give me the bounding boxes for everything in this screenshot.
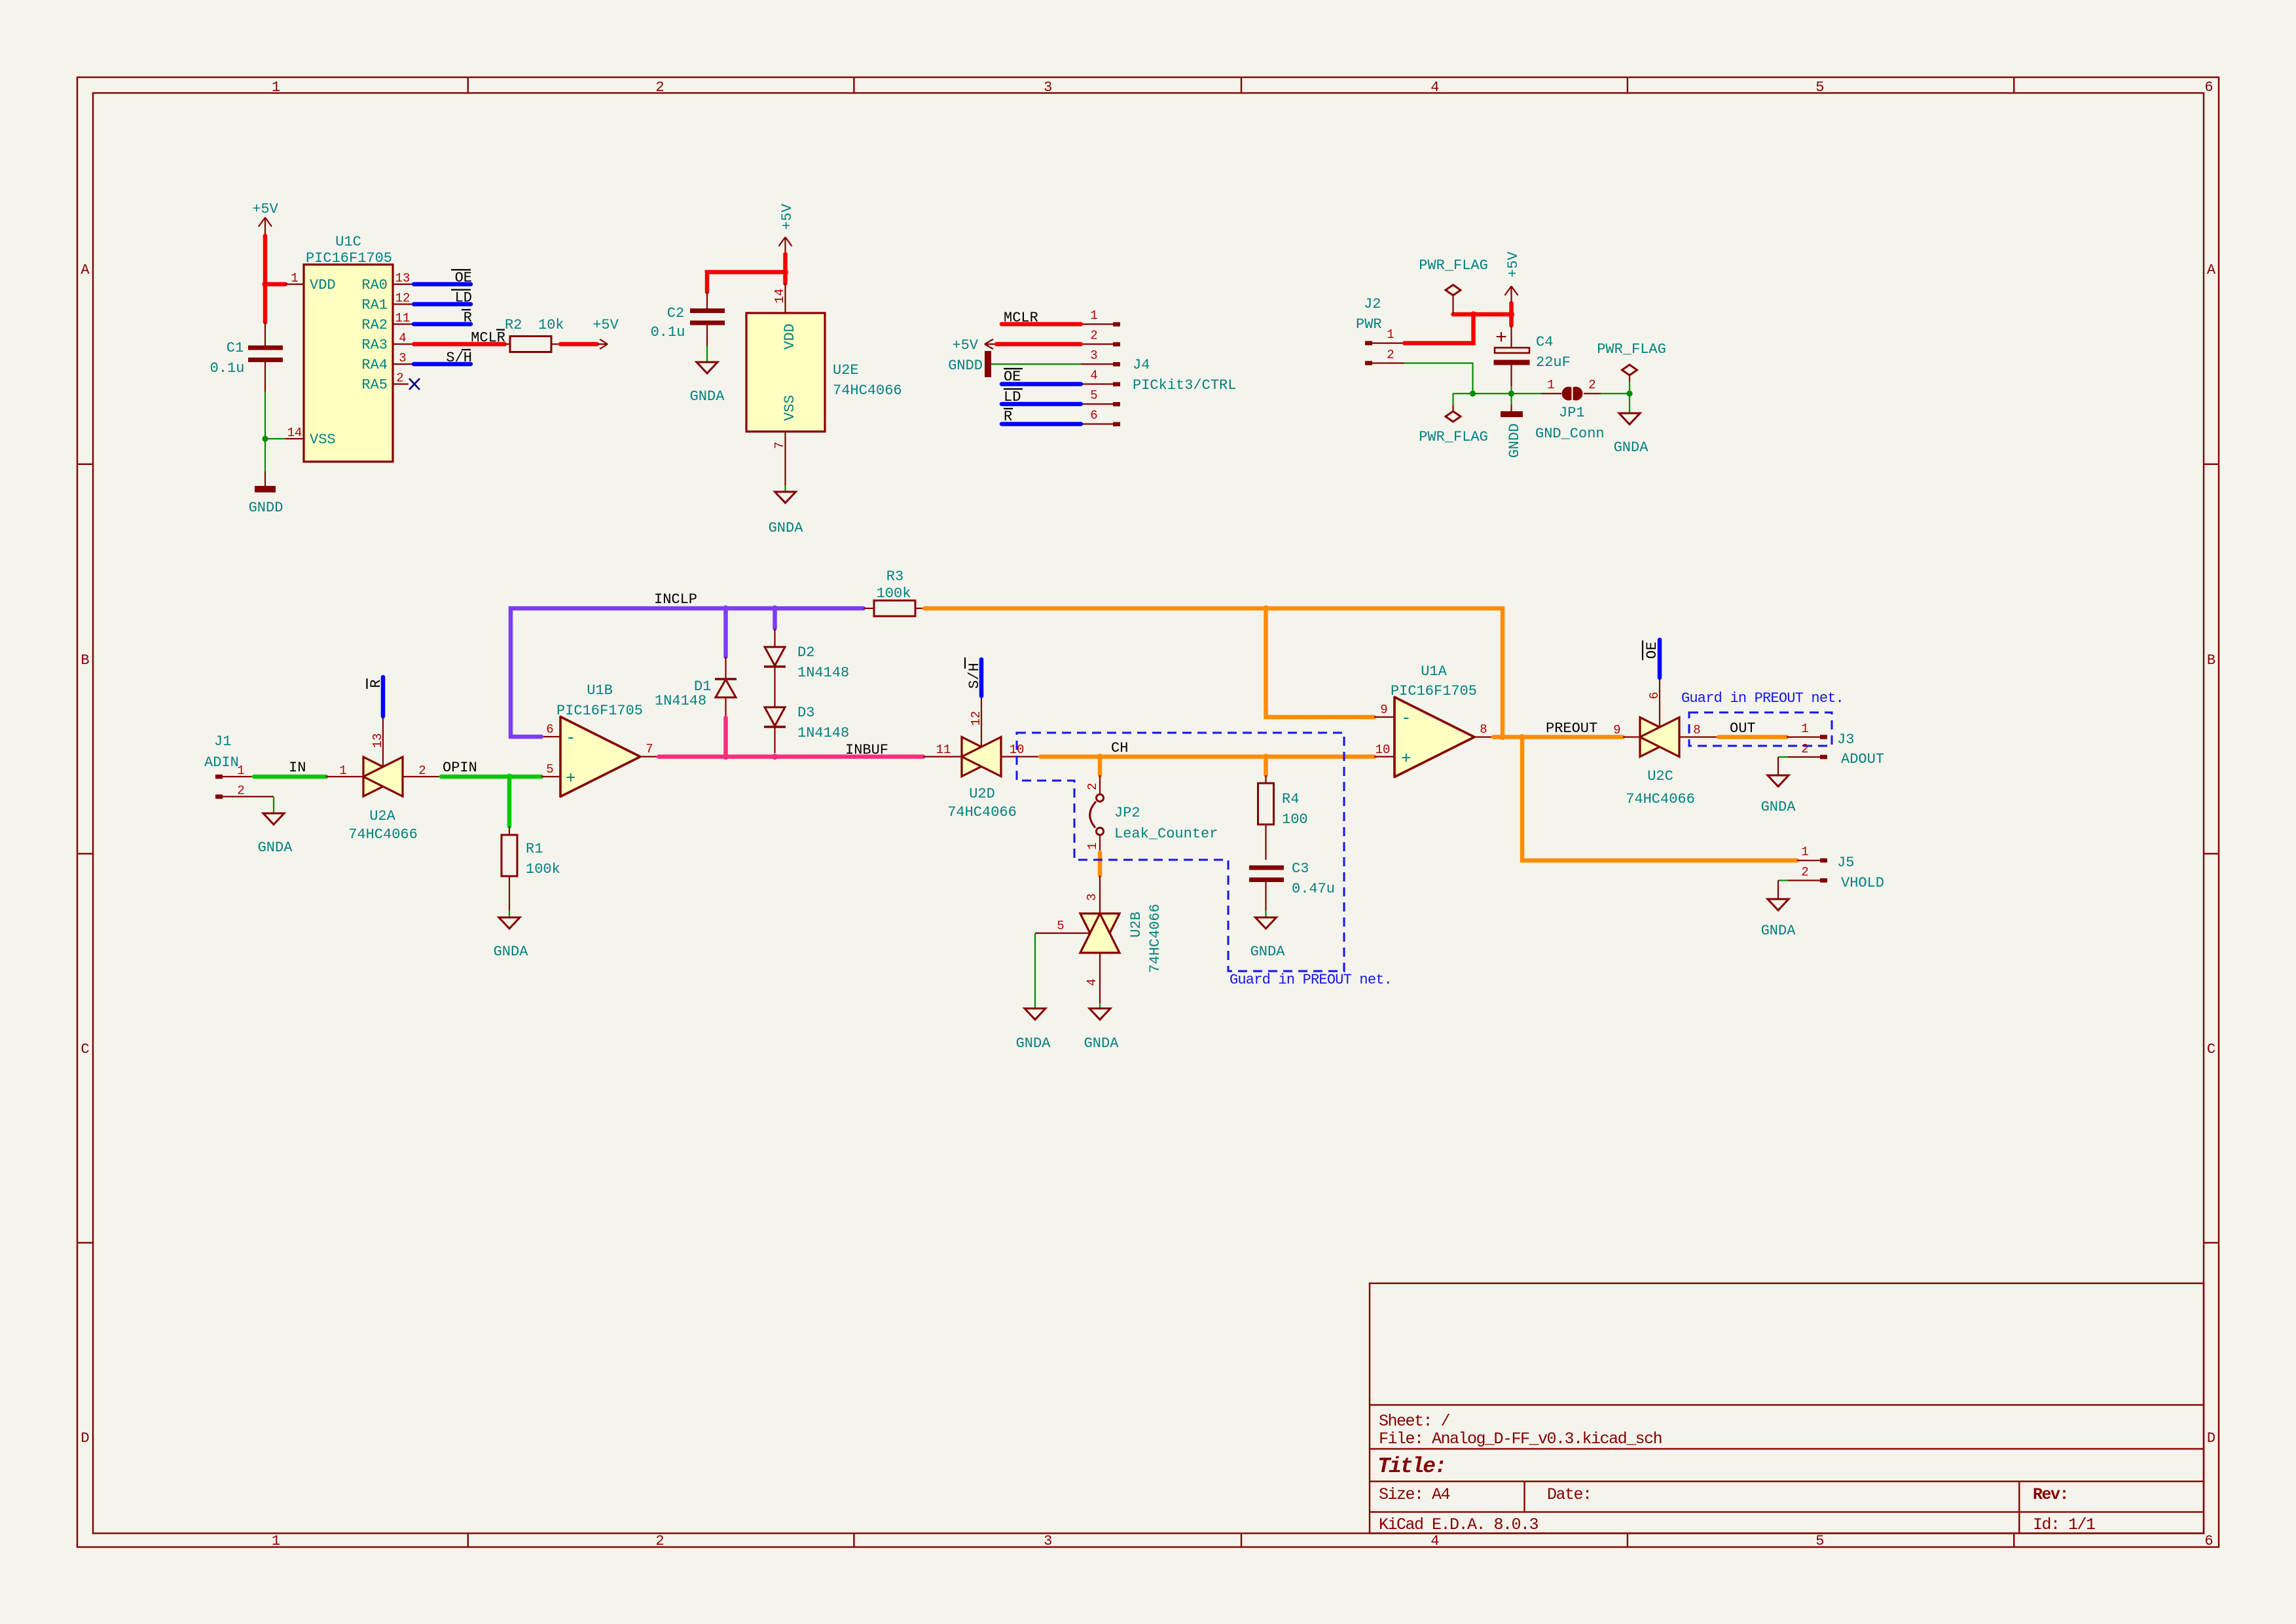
svg-text:5: 5 <box>1815 1533 1824 1549</box>
jumper JP2 Leak_Counter <box>1085 775 1218 853</box>
analog switch U2D 74HC4066 <box>923 697 1040 821</box>
pin 1 <box>1365 341 1372 346</box>
svg-text:Size: A4: Size: A4 <box>1379 1485 1450 1504</box>
label MCLR <box>471 330 505 346</box>
svg-text:10k: 10k <box>538 317 564 333</box>
power +5V (J2) <box>1505 251 1522 303</box>
svg-text:Sheet: /: Sheet: / <box>1379 1412 1450 1431</box>
wire RA4 S/H (blue) <box>414 362 471 367</box>
analog switch U2B 74HC4066 <box>1035 876 1163 1003</box>
svg-text:OPIN: OPIN <box>443 760 477 776</box>
wire OE control (blue) <box>1658 640 1662 678</box>
power flag PWR_FLAG (GND left) <box>1419 394 1488 445</box>
svg-text:+5V: +5V <box>952 337 978 354</box>
junction INCLP D1 <box>723 605 729 611</box>
title block <box>1370 1283 2204 1534</box>
svg-text:7: 7 <box>646 742 653 756</box>
wire INCLP to D1 (purple) <box>723 608 728 657</box>
svg-text:13: 13 <box>395 271 410 286</box>
svg-text:3: 3 <box>1044 79 1052 96</box>
wire J1 pin2 to GNDA (green) <box>273 797 274 813</box>
ground GNDA (J5) <box>1761 899 1796 939</box>
ground GNDA (U2B pin5) <box>1016 1008 1051 1052</box>
svg-text:U1B: U1B <box>587 682 613 699</box>
pin 11 RA2 <box>393 323 412 325</box>
wire R3 to U1A (orange) <box>924 608 1503 737</box>
label OE <box>451 270 472 286</box>
svg-text:1: 1 <box>237 764 244 778</box>
svg-text:7: 7 <box>773 441 787 449</box>
svg-text:S/H: S/H <box>446 350 472 366</box>
pin 12 RA1 <box>393 303 412 304</box>
power flag PWR_FLAG (GND right) <box>1597 341 1666 394</box>
svg-text:C: C <box>2207 1041 2215 1058</box>
svg-text:IN: IN <box>289 760 306 776</box>
capacitor C1 <box>210 322 283 392</box>
wire J4 GNDD (green) <box>991 363 1081 365</box>
svg-text:U1A: U1A <box>1421 663 1447 680</box>
wire R2 to +5V (red) <box>560 342 597 346</box>
connector J1 ADIN <box>204 733 274 799</box>
wire RA2 R (blue) <box>414 322 471 327</box>
junction bus 1 <box>1470 390 1476 396</box>
svg-text:GND_Conn: GND_Conn <box>1535 426 1605 442</box>
svg-text:B: B <box>2207 652 2215 669</box>
junction CH R4 <box>1263 754 1269 760</box>
resistor R2 <box>505 317 564 352</box>
pin 13 RA0 <box>393 284 412 285</box>
wire J4 R (blue) <box>1002 422 1081 426</box>
wire INBUF (pink) <box>659 754 923 759</box>
svg-text:A: A <box>2207 262 2216 278</box>
pin 2 <box>1365 361 1372 365</box>
svg-text:GNDD: GNDD <box>1506 424 1523 458</box>
svg-text:1N4148: 1N4148 <box>797 665 849 681</box>
svg-text:PWR_FLAG: PWR_FLAG <box>1597 341 1666 358</box>
junction VDD node <box>262 281 268 287</box>
label R (U2A control) <box>367 678 385 689</box>
wire CH to JP2 (orange) <box>1098 757 1102 776</box>
svg-text:3: 3 <box>1085 893 1099 900</box>
pin 7 output <box>640 756 659 757</box>
svg-text:VSS: VSS <box>310 432 336 448</box>
wire CH (orange) <box>1040 754 1374 759</box>
svg-text:-: - <box>1401 709 1412 728</box>
svg-text:RA2: RA2 <box>361 317 388 333</box>
svg-text:2: 2 <box>1588 378 1595 392</box>
svg-text:PWR: PWR <box>1356 316 1382 333</box>
svg-text:LD: LD <box>455 290 472 306</box>
svg-text:6: 6 <box>546 722 553 737</box>
svg-text:3: 3 <box>399 351 406 365</box>
junction PREOUT feedback <box>1499 734 1505 740</box>
svg-text:5: 5 <box>1090 388 1097 403</box>
svg-text:RA4: RA4 <box>361 357 388 373</box>
svg-text:8: 8 <box>1480 722 1487 737</box>
svg-text:4: 4 <box>399 331 406 346</box>
svg-text:KiCad E.D.A. 8.0.3: KiCad E.D.A. 8.0.3 <box>1379 1515 1539 1534</box>
label OE (U2C control) <box>1643 640 1660 660</box>
svg-text:MCLR: MCLR <box>471 330 505 346</box>
svg-text:14: 14 <box>773 289 787 304</box>
svg-text:GNDA: GNDA <box>690 388 725 405</box>
ground GNDA (C3) <box>1250 917 1286 960</box>
svg-text:GNDA: GNDA <box>494 944 529 960</box>
svg-text:8: 8 <box>1693 723 1700 737</box>
svg-text:J1: J1 <box>214 733 231 750</box>
resistor R1 100k <box>501 826 560 910</box>
svg-text:11: 11 <box>395 311 410 325</box>
wire PREOUT to J5 (orange) <box>1522 737 1797 861</box>
svg-text:1: 1 <box>291 271 298 286</box>
junction INBUF D1 <box>723 754 729 760</box>
wire R1 to GNDA (green) <box>509 910 510 917</box>
svg-text:ADIN: ADIN <box>204 754 239 771</box>
svg-text:R: R <box>464 310 472 326</box>
svg-text:1: 1 <box>339 764 346 778</box>
label S/H <box>446 350 472 366</box>
svg-text:+: + <box>1401 749 1412 769</box>
junction CH JP2 <box>1097 754 1102 760</box>
IC U1C PIC16F1705 <box>285 234 412 462</box>
junction bus right <box>1626 390 1632 396</box>
diode D2 1N4148 <box>764 629 849 707</box>
svg-text:D: D <box>2207 1430 2215 1447</box>
label LD (J4) <box>1004 389 1023 405</box>
svg-text:GNDD: GNDD <box>249 500 283 516</box>
pin 14 VDD <box>784 284 786 313</box>
svg-text:+5V: +5V <box>252 201 278 217</box>
svg-text:12: 12 <box>395 291 410 306</box>
svg-text:File: Analog_D-FF_v0.3.kicad_s: File: Analog_D-FF_v0.3.kicad_sch <box>1379 1430 1662 1449</box>
svg-text:U2C: U2C <box>1647 768 1673 784</box>
pin 6 <box>1081 423 1113 424</box>
svg-text:2: 2 <box>1387 348 1394 362</box>
svg-text:PIC16F1705: PIC16F1705 <box>556 703 643 719</box>
svg-text:3: 3 <box>1090 348 1097 363</box>
svg-text:+: + <box>1495 327 1507 350</box>
svg-text:GNDA: GNDA <box>1016 1035 1051 1052</box>
svg-text:2: 2 <box>418 764 426 778</box>
wire OUT (orange) <box>1719 735 1787 739</box>
svg-text:PWR_FLAG: PWR_FLAG <box>1419 257 1488 274</box>
no-connect X on RA5 <box>409 378 420 390</box>
wire PREOUT (orange) <box>1493 735 1623 739</box>
connector J2 PWR <box>1356 296 1404 365</box>
label LD <box>451 290 472 306</box>
svg-text:CH: CH <box>1111 740 1128 756</box>
svg-text:2: 2 <box>655 79 664 96</box>
wire S/H control (blue) <box>979 659 984 696</box>
svg-text:0.1u: 0.1u <box>651 324 685 341</box>
wire C3 to GNDA (green) <box>1265 910 1266 917</box>
svg-text:4: 4 <box>1090 369 1097 383</box>
svg-text:12: 12 <box>969 711 983 726</box>
IC U2E 74HC4066 power unit <box>746 284 902 485</box>
label S/H (U2D control) <box>965 657 983 689</box>
wire +5V to VDD pin14 (red) <box>707 254 786 292</box>
wire D1 to INBUF (pink) <box>723 718 728 757</box>
resistor R4 100 <box>1258 775 1308 860</box>
pin 1 <box>1081 323 1113 325</box>
svg-text:5: 5 <box>1815 79 1824 96</box>
pin 9 inverting <box>1374 716 1394 718</box>
svg-text:74HC4066: 74HC4066 <box>1626 791 1695 807</box>
pin 5 non-inverting <box>541 776 560 777</box>
pin 1 <box>215 775 223 779</box>
wire INCLP (purple) <box>511 608 864 737</box>
wire JP2 to U2B (orange) <box>1098 853 1102 876</box>
svg-text:2: 2 <box>1801 865 1808 879</box>
svg-text:LD: LD <box>1004 389 1021 405</box>
svg-text:J2: J2 <box>1364 296 1381 312</box>
jumper JP1 GND_Conn <box>1535 378 1605 442</box>
wire J2 pin1 +5V (red) <box>1404 303 1512 343</box>
wire CH to R4 (orange) <box>1264 757 1268 776</box>
svg-text:0.1u: 0.1u <box>210 360 245 377</box>
pin 3 RA4 <box>393 363 412 365</box>
svg-text:GNDA: GNDA <box>258 840 293 856</box>
wire RA3 MCLR (red) <box>414 342 505 346</box>
wire U2B pin4 to GNDA (green) <box>1099 1003 1101 1008</box>
svg-text:U2D: U2D <box>969 786 995 802</box>
label R <box>462 310 472 326</box>
label OE (J4) <box>1004 369 1023 385</box>
svg-text:R: R <box>368 679 384 688</box>
ground GNDA (U2E) <box>769 492 804 536</box>
svg-text:R2: R2 <box>505 317 522 333</box>
svg-text:C2: C2 <box>667 305 684 322</box>
pin 5 <box>1081 403 1113 405</box>
svg-text:1: 1 <box>1801 845 1808 859</box>
svg-text:GNDA: GNDA <box>769 520 804 536</box>
svg-text:14: 14 <box>287 426 302 440</box>
svg-text:9: 9 <box>1613 723 1620 737</box>
svg-text:GNDA: GNDA <box>1761 799 1796 815</box>
svg-text:74HC4066: 74HC4066 <box>348 826 418 843</box>
svg-text:Guard in PREOUT net.: Guard in PREOUT net. <box>1230 972 1392 988</box>
pin 10 non-inverting <box>1374 756 1394 757</box>
wire J5 pin2 to GNDA (green) <box>1778 879 1788 881</box>
svg-text:R4: R4 <box>1282 791 1299 807</box>
wire J4 LD (blue) <box>1002 402 1081 407</box>
svg-text:Rev:: Rev: <box>2033 1485 2068 1504</box>
pin 1 VDD <box>285 284 304 285</box>
svg-text:GNDA: GNDA <box>1614 439 1649 456</box>
wire ground bus (green) <box>1453 393 1630 394</box>
ground GNDA (R1) <box>494 917 529 960</box>
power +5V (U1C supply) <box>252 201 278 234</box>
svg-text:GNDA: GNDA <box>1250 944 1286 960</box>
svg-text:JP1: JP1 <box>1559 405 1585 421</box>
wire VSS to GNDA (green) <box>784 485 786 491</box>
wire OPIN (green) <box>441 775 541 779</box>
wire J4 MCLR (red) <box>1002 322 1081 327</box>
svg-text:D2: D2 <box>797 644 814 661</box>
svg-text:J4: J4 <box>1133 357 1150 373</box>
svg-text:A: A <box>81 262 90 278</box>
svg-text:PWR_FLAG: PWR_FLAG <box>1419 429 1488 445</box>
pin 4 RA3 <box>393 343 412 344</box>
svg-text:MCLR: MCLR <box>1004 310 1038 326</box>
junction R3 net / pin9 drop <box>1263 605 1269 611</box>
svg-text:1: 1 <box>272 1533 280 1549</box>
wire J3 pin2 to GNDA (green) <box>1778 756 1788 758</box>
op-amp U1B PIC16F1705 <box>541 682 659 797</box>
svg-text:1: 1 <box>272 79 280 96</box>
svg-text:6: 6 <box>2204 79 2213 96</box>
svg-text:INCLP: INCLP <box>654 591 697 608</box>
connector J5 VHOLD <box>1788 845 1884 891</box>
wire feedback to pin 9 (orange) <box>1266 608 1375 717</box>
svg-text:+5V: +5V <box>779 203 795 229</box>
guard ring (OUT net, dashed blue) <box>1689 712 1832 746</box>
wire J2 pin2 to ground bus (green) <box>1404 363 1473 394</box>
svg-text:GNDA: GNDA <box>1084 1035 1120 1052</box>
wire INCLP to D2 (purple) <box>773 608 777 629</box>
wire IN (green) <box>254 775 326 779</box>
wire C1 to GNDD (green) <box>264 392 266 471</box>
svg-text:11: 11 <box>936 743 951 757</box>
ground GNDA (J1) <box>258 813 293 856</box>
junction OPIN node <box>506 773 512 779</box>
wire C4 to ground bus (green) <box>1510 386 1512 394</box>
svg-text:PIC16F1705: PIC16F1705 <box>306 250 392 267</box>
junction red <box>1470 311 1476 317</box>
pin 2 RA5 <box>393 383 409 384</box>
capacitor C3 0.47u <box>1249 860 1335 910</box>
svg-text:JP2: JP2 <box>1114 805 1140 821</box>
svg-text:1: 1 <box>1387 327 1394 342</box>
svg-text:S/H: S/H <box>966 663 983 689</box>
analog switch U2A 74HC4066 <box>326 718 441 843</box>
svg-text:C1: C1 <box>227 340 244 356</box>
guard ring (CH net, dashed blue) <box>1017 733 1344 971</box>
svg-text:RA0: RA0 <box>361 277 388 293</box>
wire C2 to GNDA (green) <box>706 346 708 361</box>
svg-text:R3: R3 <box>886 568 903 585</box>
svg-text:1: 1 <box>1085 842 1100 849</box>
svg-text:U2A: U2A <box>369 808 395 824</box>
capacitor C2 <box>651 292 725 347</box>
junction bus 2 <box>1508 390 1514 396</box>
wire OPIN to R1 (green) <box>507 777 512 826</box>
svg-text:RA3: RA3 <box>361 337 388 354</box>
junction +5V node <box>782 269 788 275</box>
svg-text:1N4148: 1N4148 <box>797 725 849 741</box>
svg-text:Title:: Title: <box>1377 1454 1446 1479</box>
svg-text:VSS: VSS <box>782 395 798 421</box>
svg-text:74HC4066: 74HC4066 <box>1147 904 1163 973</box>
svg-text:INBUF: INBUF <box>845 742 888 758</box>
svg-text:9: 9 <box>1380 703 1387 717</box>
svg-text:Id: 1/1: Id: 1/1 <box>2033 1515 2095 1534</box>
svg-text:6: 6 <box>1647 692 1662 699</box>
svg-text:OE: OE <box>1004 369 1021 385</box>
svg-text:U2B: U2B <box>1128 912 1144 938</box>
svg-text:RA1: RA1 <box>361 297 388 314</box>
svg-text:74HC4066: 74HC4066 <box>947 804 1017 821</box>
wire VDD branch <box>265 282 285 287</box>
wire VSS branch <box>265 438 285 439</box>
junction INBUF D3 <box>772 754 778 760</box>
svg-text:6: 6 <box>2204 1533 2213 1549</box>
svg-text:2: 2 <box>396 371 403 386</box>
power +5V (U2E supply) <box>779 203 796 253</box>
svg-text:R: R <box>1004 409 1012 425</box>
svg-text:1: 1 <box>1090 308 1097 323</box>
svg-text:VDD: VDD <box>310 277 336 293</box>
wire J4 +5V (red) <box>996 342 1081 346</box>
svg-text:2: 2 <box>1090 329 1097 343</box>
junction VSS node <box>262 435 268 441</box>
svg-text:C3: C3 <box>1292 860 1309 877</box>
svg-text:J5: J5 <box>1837 855 1854 871</box>
svg-text:C: C <box>81 1041 89 1058</box>
svg-text:+5V: +5V <box>1505 251 1522 277</box>
svg-text:6: 6 <box>1090 409 1097 423</box>
ground GNDA (C2) <box>690 362 725 405</box>
connector J3 ADOUT <box>1787 722 1884 767</box>
svg-text:OUT: OUT <box>1730 720 1756 737</box>
pin 6 inverting <box>541 736 560 737</box>
junction red 2 <box>1508 311 1514 317</box>
svg-text:1N4148: 1N4148 <box>655 693 706 709</box>
svg-text:VHOLD: VHOLD <box>1841 875 1884 891</box>
svg-text:2: 2 <box>237 784 244 798</box>
svg-text:100: 100 <box>1282 811 1308 828</box>
capacitor C4 22uF <box>1494 325 1571 386</box>
svg-text:U1C: U1C <box>335 234 361 250</box>
svg-text:R1: R1 <box>526 841 543 857</box>
svg-text:-: - <box>566 728 576 748</box>
svg-text:VDD: VDD <box>782 323 798 350</box>
svg-text:100k: 100k <box>526 861 560 877</box>
pin 14 VSS <box>285 438 304 439</box>
ground GNDD (C4) <box>1501 394 1523 458</box>
svg-text:5: 5 <box>546 762 553 777</box>
svg-text:ADOUT: ADOUT <box>1841 751 1884 767</box>
ground GNDA (J3) <box>1761 775 1796 815</box>
pin 8 output <box>1474 736 1493 737</box>
svg-text:100k: 100k <box>877 585 911 602</box>
svg-text:1: 1 <box>1801 722 1808 736</box>
wire U2B pin5 to GNDA (green) <box>1034 933 1036 1008</box>
svg-text:PIC16F1705: PIC16F1705 <box>1391 683 1477 699</box>
svg-text:2: 2 <box>655 1533 664 1549</box>
svg-text:22uF: 22uF <box>1536 354 1571 371</box>
svg-text:PICkit3/CTRL: PICkit3/CTRL <box>1133 377 1236 394</box>
op-amp U1A PIC16F1705 <box>1374 663 1493 777</box>
svg-text:1: 1 <box>1547 378 1554 392</box>
diode D3 1N4148 <box>764 705 849 753</box>
svg-text:4: 4 <box>1430 79 1439 96</box>
svg-text:4: 4 <box>1430 1533 1439 1549</box>
svg-text:Guard in PREOUT net.: Guard in PREOUT net. <box>1681 690 1844 707</box>
wire RA1 LD (blue) <box>414 302 471 306</box>
connector J4 PICkit3/CTRL <box>1081 308 1236 426</box>
svg-text:3: 3 <box>1044 1533 1052 1549</box>
junction PREOUT J5 <box>1519 734 1525 740</box>
ground GNDA (U2B pin4) <box>1084 1008 1120 1052</box>
svg-text:D3: D3 <box>797 705 814 721</box>
svg-text:C4: C4 <box>1536 334 1553 350</box>
svg-text:+: + <box>566 769 576 788</box>
junction INCLP D2 <box>772 605 778 611</box>
wire RA0 OE (blue) <box>414 282 471 287</box>
pin 3 <box>1081 363 1113 365</box>
svg-text:0.47u: 0.47u <box>1292 881 1335 897</box>
